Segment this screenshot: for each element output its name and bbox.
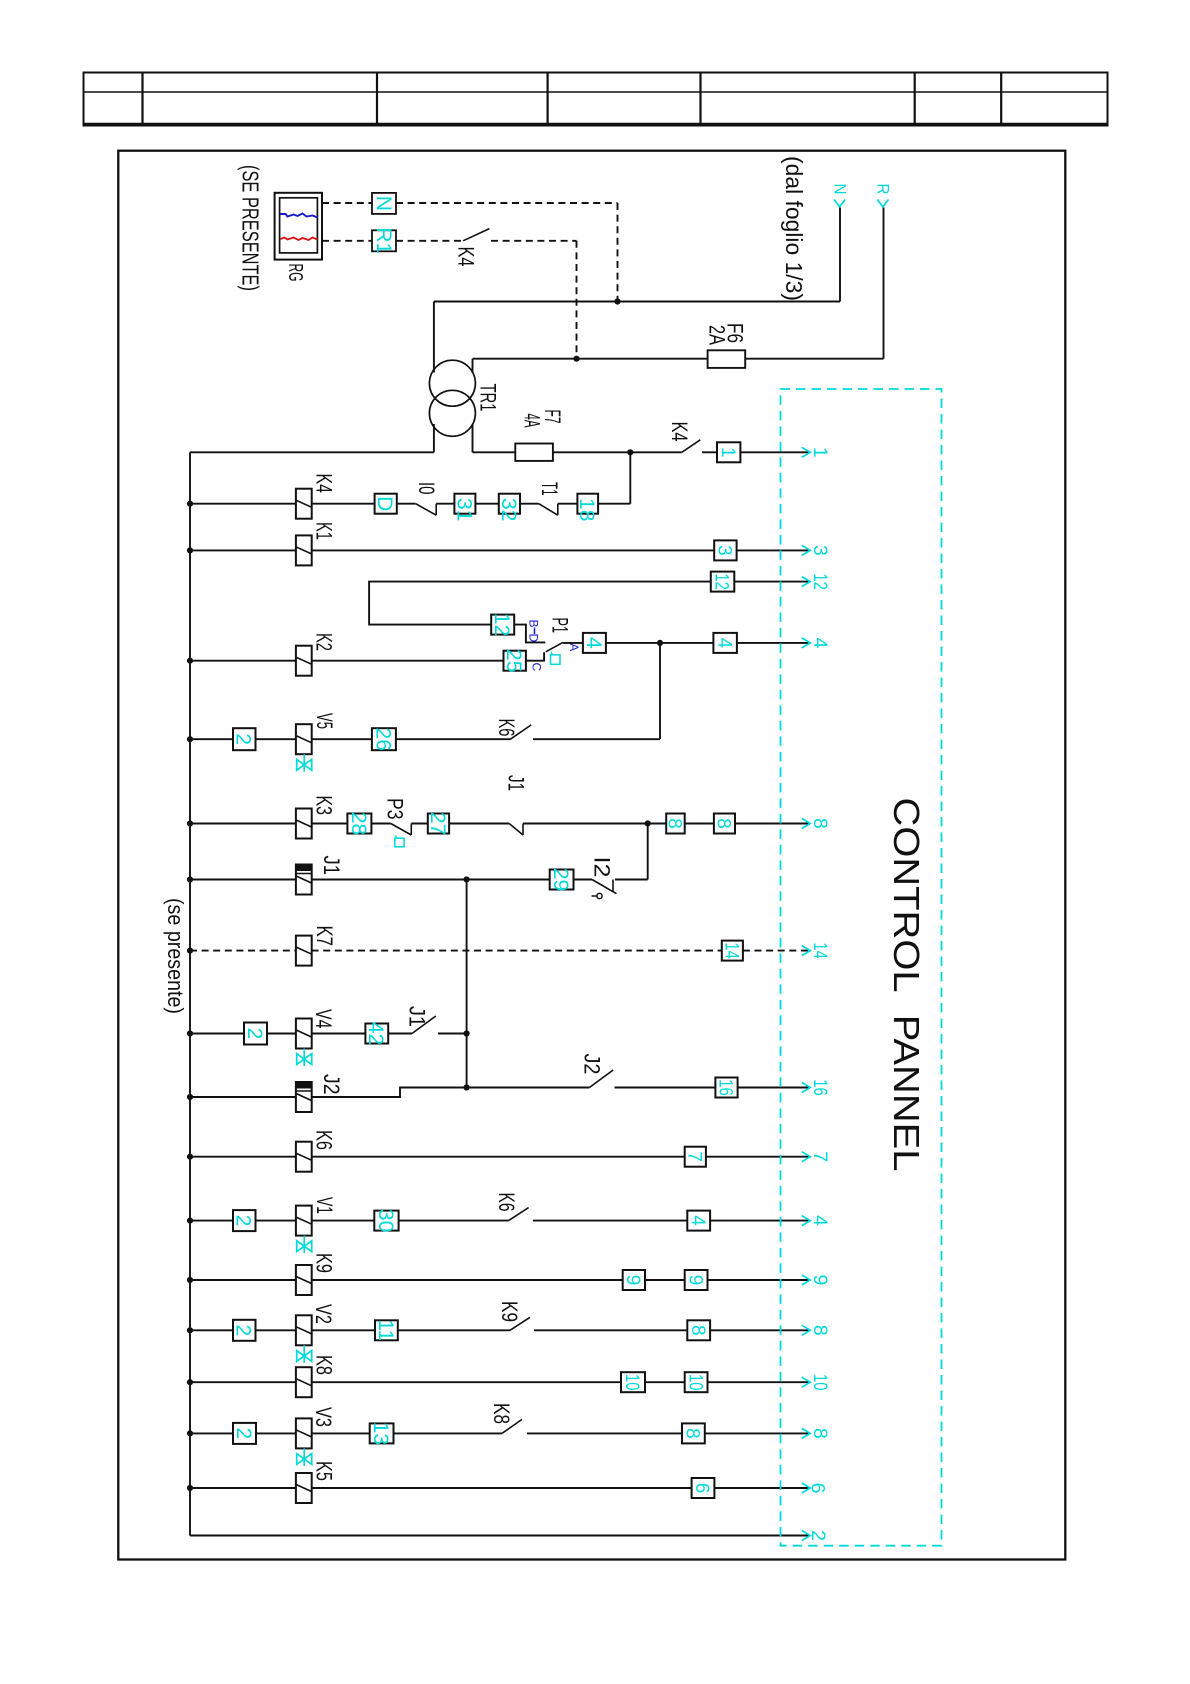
signal generator RG (box with waveforms) xyxy=(275,193,322,260)
svg-text:10: 10 xyxy=(809,1374,831,1391)
wire K6 coil to box 7 xyxy=(312,1156,685,1158)
wire K4 to corner (dashed) xyxy=(491,240,577,242)
relay coil J2 (latching) xyxy=(296,1082,312,1112)
wire K6 to box 4 xyxy=(533,1220,687,1222)
wire J2 coil jog to riser xyxy=(312,1088,467,1098)
terminal box 31 xyxy=(454,494,475,514)
svg-text:1: 1 xyxy=(809,447,831,458)
wire riser I2 to K3 node xyxy=(647,824,649,880)
wire bus to J2 coil xyxy=(190,1096,296,1098)
wire box 8 to panel xyxy=(705,1432,809,1434)
node bus K4 row xyxy=(187,501,193,507)
svg-text:B: B xyxy=(527,620,541,628)
node bus K8 row xyxy=(187,1379,193,1385)
arrow row 7 xyxy=(802,1152,811,1162)
svg-text:8: 8 xyxy=(682,1428,703,1439)
svg-text:2: 2 xyxy=(232,733,255,745)
svg-text:4: 4 xyxy=(713,638,734,649)
svg-text:K3: K3 xyxy=(312,796,337,816)
svg-text:9: 9 xyxy=(622,1275,643,1286)
wire box 16 to panel xyxy=(738,1087,809,1089)
contact I0 xyxy=(416,504,437,516)
wire N rail (horizontal) xyxy=(434,301,840,303)
svg-text:42: 42 xyxy=(364,1022,387,1045)
wire TR1 secondary right xyxy=(472,424,474,452)
svg-text:C: C xyxy=(530,663,544,672)
node bus V5 row xyxy=(187,736,193,742)
svg-text:K6: K6 xyxy=(312,1130,337,1150)
contact K4 (row 1) xyxy=(682,440,701,453)
fuse F6 xyxy=(708,350,746,368)
terminal box 14 xyxy=(722,941,743,961)
wire R rail (vertical drop) xyxy=(883,208,885,359)
wire box 11 to K9 xyxy=(398,1329,510,1331)
arrow row 4 (V1) xyxy=(802,1216,811,1226)
terminal box 10 (panel side) xyxy=(685,1372,708,1392)
terminal box 10 (inner) xyxy=(621,1372,645,1392)
wire RG to R1 box (dashed) xyxy=(322,240,372,242)
fuse F7 xyxy=(515,444,553,461)
wire bus to K3 coil xyxy=(190,823,296,825)
svg-text:8: 8 xyxy=(687,1325,708,1336)
svg-text:N: N xyxy=(372,196,395,211)
terminal box 2 (V5) xyxy=(233,728,256,750)
svg-text:K1: K1 xyxy=(312,522,337,540)
wire box 14 to panel (dashed) xyxy=(743,950,809,952)
wire box 4 to node xyxy=(606,642,714,644)
wire to TR1 primary right xyxy=(472,359,474,373)
svg-text:25: 25 xyxy=(502,649,525,672)
svg-text:K7: K7 xyxy=(312,926,337,947)
svg-text:T1: T1 xyxy=(537,482,562,496)
terminal box 8 (panel side) xyxy=(714,814,735,834)
terminal box 27 xyxy=(428,814,449,834)
svg-text:V1: V1 xyxy=(312,1197,337,1214)
wire box 2 to V3 coil xyxy=(256,1432,296,1434)
connector mark B-D xyxy=(534,628,536,635)
wire box 26 to K6 xyxy=(396,738,511,740)
wire K4 coil to box D xyxy=(312,503,375,505)
svg-text:10: 10 xyxy=(684,1374,705,1391)
wire K8 to box 8 xyxy=(527,1432,682,1434)
terminal box 12 (at P1) xyxy=(491,615,514,635)
node K3/I2 junction xyxy=(645,820,651,826)
svg-text:D: D xyxy=(527,634,541,643)
wire dashed vertical to N rail xyxy=(617,203,619,302)
arrow row 4 xyxy=(802,638,811,648)
node bus V3 row xyxy=(187,1430,193,1436)
contact K8 (V3 row) xyxy=(502,1419,522,1433)
arrow row 14 xyxy=(802,946,811,956)
contact P3 (pressure switch) xyxy=(391,824,412,836)
wire row 12 back to P1 xyxy=(369,582,711,625)
arrow row 8 (V3) xyxy=(802,1428,811,1438)
svg-text:18: 18 xyxy=(575,498,598,521)
svg-text:TR1: TR1 xyxy=(476,384,501,412)
contact K4 (on R1 line) xyxy=(463,229,489,241)
svg-text:N: N xyxy=(831,184,850,195)
wire bus to box 2 xyxy=(190,738,233,740)
transformer TR1 primary winding xyxy=(429,360,475,406)
valve symbol V3 xyxy=(303,1448,305,1466)
svg-text:12: 12 xyxy=(711,573,732,590)
valve symbol V2 xyxy=(303,1345,305,1363)
wire bus to K1 coil xyxy=(190,549,296,551)
svg-text:V4: V4 xyxy=(311,1009,336,1029)
relay coil K3 xyxy=(296,809,312,839)
relay coil K1 xyxy=(296,535,312,565)
wire bus to K8 coil xyxy=(190,1381,296,1383)
relay coil V5 (valve solenoid) xyxy=(296,724,312,754)
svg-text:26: 26 xyxy=(371,728,394,751)
wire K7 coil to box 14 (dashed) xyxy=(312,950,722,952)
arrow row 6 xyxy=(802,1483,811,1493)
wire riser J1-V4-J2 xyxy=(466,880,468,1088)
arrow row 10 xyxy=(802,1377,811,1387)
terminal box 2 (V4) xyxy=(244,1023,267,1045)
wire top feed to left bus xyxy=(190,451,434,453)
wire box 3 to panel xyxy=(737,549,809,551)
wire dashed vertical to R rail xyxy=(576,241,578,359)
node bus J2 row xyxy=(187,1094,193,1100)
svg-text:10: 10 xyxy=(621,1374,642,1391)
svg-text:CONTROL PANNEL: CONTROL PANNEL xyxy=(886,798,927,1172)
terminal box 4 (panel side) xyxy=(713,633,737,653)
arrow row 12 xyxy=(802,577,811,587)
svg-text:8: 8 xyxy=(809,1325,831,1336)
wire bus to K2 coil xyxy=(190,660,296,662)
svg-text:11: 11 xyxy=(374,1319,397,1341)
terminal box 2 (V2) xyxy=(233,1320,256,1341)
svg-text:12: 12 xyxy=(809,573,831,590)
terminal box 8 (V3 row) xyxy=(682,1423,705,1443)
svg-text:27: 27 xyxy=(426,812,449,835)
svg-text:13: 13 xyxy=(369,1422,392,1445)
wire bus to box 2 (V4) xyxy=(190,1033,244,1035)
svg-text:K9: K9 xyxy=(497,1301,522,1322)
relay coil K6 xyxy=(296,1142,312,1172)
wire bus bottom return xyxy=(190,1535,809,1537)
svg-text:9: 9 xyxy=(809,1275,831,1286)
svg-text:9: 9 xyxy=(684,1275,705,1286)
terminal box 32 xyxy=(499,494,520,514)
svg-text:8: 8 xyxy=(713,818,734,829)
contact (unnamed, K3 row) xyxy=(509,824,523,836)
node bus V1 row xyxy=(187,1218,193,1224)
relay coil K4 xyxy=(296,489,312,519)
svg-text:4: 4 xyxy=(582,637,605,649)
wire box 12 to panel xyxy=(734,581,808,583)
svg-text:(dal foglio 1/3): (dal foglio 1/3) xyxy=(781,156,807,301)
terminal box N xyxy=(372,193,396,214)
svg-text:14: 14 xyxy=(809,942,831,959)
wire TR1 to fuse F7 xyxy=(473,451,516,453)
wire box 12 to throw B xyxy=(514,625,545,643)
relay coil K2 xyxy=(296,646,312,676)
arrow N (from sheet 1/3) xyxy=(834,200,845,207)
wire box 4 to panel xyxy=(710,1220,808,1222)
svg-text:P3: P3 xyxy=(383,798,408,820)
wire N rail (vertical drop) xyxy=(839,208,841,302)
svg-text:2: 2 xyxy=(807,1530,829,1541)
wire riser to row1 node xyxy=(629,452,631,503)
wire V1 coil to box 30 xyxy=(312,1220,375,1222)
wire box 25 to P1 common xyxy=(526,652,544,661)
node junction on N rail xyxy=(614,298,620,304)
left bus (vertical supply rail) xyxy=(189,452,191,1535)
wire box 28 to P3 xyxy=(371,823,390,825)
svg-text:V5: V5 xyxy=(312,713,337,729)
node bus K6 row xyxy=(187,1154,193,1160)
terminal box 4 (V1 row) xyxy=(687,1211,710,1231)
svg-text:V2: V2 xyxy=(311,1304,336,1324)
wire contact to node xyxy=(523,823,666,825)
svg-text:K6: K6 xyxy=(494,1193,519,1212)
wire bus to K6 coil xyxy=(190,1156,296,1158)
node bus K5 row xyxy=(187,1485,193,1491)
wire K6 to riser xyxy=(533,738,660,740)
terminal box 29 xyxy=(550,870,574,890)
svg-text:2A: 2A xyxy=(705,325,730,345)
arrow row 8 (V2) xyxy=(802,1325,811,1335)
wire bus to box 2 (V3) xyxy=(190,1432,233,1434)
control panel boundary (dashed) xyxy=(781,389,942,1546)
svg-text:2: 2 xyxy=(232,1324,255,1336)
node junction on R rail xyxy=(573,356,579,362)
wire J1 coil to box 29 xyxy=(312,879,550,881)
terminal box 4 (at P1) xyxy=(583,633,606,653)
wire K1 coil to box 3 xyxy=(312,549,715,551)
node bus V4 row xyxy=(187,1030,193,1036)
contact J1 xyxy=(412,1016,436,1034)
svg-text:12: 12 xyxy=(490,613,513,636)
node bus K7 row xyxy=(187,948,193,954)
svg-text:16: 16 xyxy=(715,1079,736,1096)
svg-text:32: 32 xyxy=(497,498,520,521)
terminal box 16 xyxy=(715,1078,737,1098)
svg-text:J1: J1 xyxy=(319,856,344,876)
terminal box 13 xyxy=(370,1423,394,1443)
valve symbol V4 xyxy=(303,1049,305,1067)
terminal box 28 xyxy=(347,814,371,834)
node row 4 xyxy=(657,640,663,646)
selector switch P1 blade xyxy=(546,642,563,651)
terminal box 11 xyxy=(375,1320,398,1340)
svg-text:3: 3 xyxy=(809,545,831,556)
svg-text:K4: K4 xyxy=(454,247,479,267)
contact I2 xyxy=(592,880,617,894)
svg-text:K4: K4 xyxy=(667,422,692,442)
wire K2 coil to box 25 xyxy=(312,660,504,662)
relay coil V2 xyxy=(296,1315,312,1345)
svg-text:8: 8 xyxy=(664,818,685,829)
terminal box 12 (panel side) xyxy=(711,572,735,592)
wire box D to I0 xyxy=(397,503,416,505)
node bus K3 row xyxy=(187,820,193,826)
contact K6 (V1 row) xyxy=(509,1208,529,1221)
svg-text:K8: K8 xyxy=(489,1403,514,1424)
valve symbol V1 xyxy=(303,1236,305,1254)
svg-text:(se presente): (se presente) xyxy=(163,898,188,1014)
relay coil V1 xyxy=(296,1206,312,1236)
wire bus to J1 coil xyxy=(190,879,296,881)
terminal box 6 xyxy=(692,1478,715,1498)
relay coil V4 xyxy=(296,1019,312,1049)
wire box 9 to box 9 xyxy=(645,1279,685,1281)
terminal box 7 xyxy=(685,1147,706,1167)
terminal box 26 xyxy=(372,728,396,750)
wire blade to box 4 xyxy=(563,642,583,644)
wire bus to K9 coil xyxy=(190,1279,296,1281)
node bus V2 row xyxy=(187,1327,193,1333)
wire box 31 to box 32 xyxy=(475,503,498,505)
wire K4 to box 1 xyxy=(702,451,717,453)
svg-text:7: 7 xyxy=(809,1151,831,1162)
wire J1 contact to riser xyxy=(438,1033,467,1035)
wire bus to K5 coil xyxy=(190,1487,296,1489)
contact K6 (V5 row) xyxy=(510,725,531,739)
wire V4 coil to box 42 xyxy=(312,1033,366,1035)
svg-text:K8: K8 xyxy=(312,1355,337,1375)
svg-text:14: 14 xyxy=(721,942,742,959)
svg-text:16: 16 xyxy=(809,1079,831,1096)
svg-text:3: 3 xyxy=(714,545,735,556)
svg-text:1: 1 xyxy=(717,447,738,458)
svg-text:29: 29 xyxy=(549,868,572,891)
svg-text:4: 4 xyxy=(687,1215,708,1226)
wire box 10 to box 10 xyxy=(645,1381,685,1383)
svg-text:8: 8 xyxy=(809,818,831,829)
node riser J2 xyxy=(464,1084,470,1090)
wire box 27 to contact xyxy=(449,823,509,825)
wire box 9 to panel xyxy=(708,1279,809,1281)
wire TR1 secondary left xyxy=(433,424,435,452)
wire J2 contact to box 16 xyxy=(615,1087,716,1089)
wire bus to box 2 (V1) xyxy=(190,1220,233,1222)
svg-text:V3: V3 xyxy=(311,1407,336,1427)
terminal box 1 xyxy=(717,442,740,462)
relay coil J1 (latching) xyxy=(296,865,312,895)
wire bus to K4 coil xyxy=(190,503,296,505)
wire box 18 to riser xyxy=(598,503,630,505)
wire F6 to TR1 corner xyxy=(473,358,708,360)
wire riser V5 to row 4 xyxy=(659,643,661,739)
wire V2 coil to box 11 xyxy=(312,1329,375,1331)
wire box 42 to J1 contact xyxy=(388,1033,412,1035)
svg-text:2: 2 xyxy=(243,1028,266,1040)
contact J2 xyxy=(589,1070,613,1088)
svg-text:I0: I0 xyxy=(414,482,439,495)
wire box 2 to V4 coil xyxy=(267,1033,296,1035)
wire box 32 to T1 xyxy=(520,503,539,505)
wire box 8 to panel xyxy=(710,1329,808,1331)
node bus K9 row xyxy=(187,1277,193,1283)
wire N rail to TR1 primary xyxy=(433,302,435,373)
svg-text:4: 4 xyxy=(809,1215,831,1226)
svg-text:K5: K5 xyxy=(312,1461,337,1481)
terminal box 3 xyxy=(714,540,736,560)
wire RG to N box (dashed) xyxy=(322,202,372,204)
wire box 4 to panel xyxy=(737,642,809,644)
svg-text:P1: P1 xyxy=(548,618,573,634)
svg-text:30: 30 xyxy=(374,1209,397,1232)
wire V3 coil to box 13 xyxy=(312,1432,370,1434)
svg-text:2: 2 xyxy=(232,1215,255,1227)
terminal box 42 xyxy=(365,1024,388,1044)
svg-text:6: 6 xyxy=(807,1483,829,1494)
svg-text:4: 4 xyxy=(809,637,831,648)
terminal box 9 (panel side) xyxy=(685,1270,708,1290)
wire K8 coil to box 10 xyxy=(312,1381,621,1383)
svg-text:J2: J2 xyxy=(319,1074,344,1095)
wire bus to box 2 (V2) xyxy=(190,1329,233,1331)
svg-text:RG: RG xyxy=(284,264,306,282)
svg-text:31: 31 xyxy=(452,498,475,521)
svg-text:R1: R1 xyxy=(372,227,395,254)
arrow row 2 xyxy=(802,1531,811,1541)
svg-text:I2: I2 xyxy=(590,857,615,878)
wire V5 coil to box 26 xyxy=(312,738,372,740)
node bus K2 row xyxy=(187,658,193,664)
relay coil K5 xyxy=(296,1473,312,1503)
relay coil V3 xyxy=(296,1418,312,1448)
terminal box D xyxy=(375,494,397,514)
arrow row 8 xyxy=(802,819,811,829)
wire K3 coil to box 28 xyxy=(312,823,348,825)
svg-text:4A: 4A xyxy=(520,414,545,428)
wire box 2 to V5 coil xyxy=(256,738,297,740)
wire box 29 to I2 xyxy=(574,879,593,881)
wire R rail fuse side xyxy=(745,358,883,360)
contact T1 (thermostat) xyxy=(539,504,558,516)
terminal box 2 (V1) xyxy=(233,1210,256,1231)
svg-text:K2: K2 xyxy=(312,633,337,651)
wire box 13 to K8 xyxy=(394,1432,503,1434)
svg-text:J1: J1 xyxy=(504,775,529,791)
terminal box R1 xyxy=(372,230,396,251)
svg-text:2: 2 xyxy=(232,1428,255,1440)
wire P3 to box 27 xyxy=(411,823,428,825)
wire box 2 to V2 coil xyxy=(256,1329,297,1331)
wire K9 coil to box 9 xyxy=(312,1279,623,1281)
svg-text:J2: J2 xyxy=(580,1054,605,1075)
svg-text:K9: K9 xyxy=(312,1253,337,1273)
arrow row 1 xyxy=(802,447,811,457)
wire F7 to node xyxy=(553,451,682,453)
actuator P3 (cyan) xyxy=(395,838,404,847)
wire I2 to riser xyxy=(615,879,648,881)
terminal box 8 (inner) xyxy=(666,814,685,834)
wire box 8 to panel xyxy=(735,823,809,825)
svg-text:(SE PRESENTE): (SE PRESENTE) xyxy=(238,165,264,291)
relay coil K7 xyxy=(296,936,312,966)
svg-text:A: A xyxy=(567,643,581,651)
arrow row 3 xyxy=(802,545,811,555)
terminal box 18 xyxy=(577,494,598,514)
wire box 30 to K6 xyxy=(399,1220,509,1222)
wire box 10 to panel xyxy=(708,1381,809,1383)
wire bus to K7 coil (dashed) xyxy=(190,950,296,952)
node row1 feed xyxy=(627,449,633,455)
wire T1 to box 18 xyxy=(558,503,578,505)
wire R1 box to switch K4 (dashed) xyxy=(396,240,463,242)
wire box 2 to V1 coil xyxy=(256,1220,297,1222)
svg-text:6: 6 xyxy=(691,1483,712,1494)
terminal box 30 xyxy=(374,1211,398,1231)
wire riser to J2 contact xyxy=(467,1087,590,1089)
relay coil K9 xyxy=(296,1265,312,1295)
svg-text:D: D xyxy=(373,496,396,511)
